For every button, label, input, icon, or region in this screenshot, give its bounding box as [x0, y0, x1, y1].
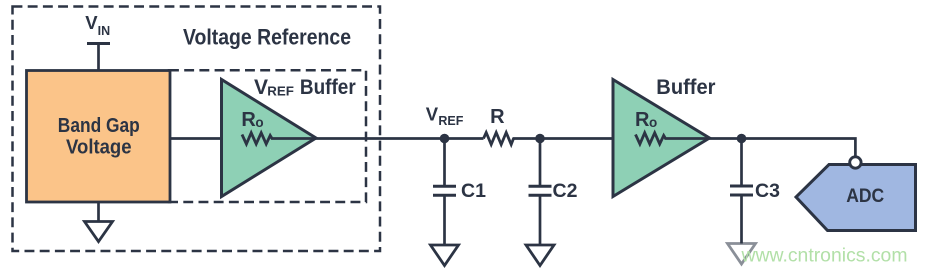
- wire U2 output to ADC: [708, 139, 855, 157]
- wire U1 output to R: [314, 137, 484, 140]
- VIN terminal bar: [87, 42, 110, 45]
- svg-text:Voltage: Voltage: [66, 136, 132, 159]
- ground (C2): [526, 245, 554, 266]
- op-amp U1 (VREF buffer): [222, 80, 317, 197]
- wire VIN to band gap box: [97, 44, 100, 72]
- ground (C1): [431, 245, 459, 266]
- resistor R: [484, 133, 514, 145]
- svg-text:Band Gap: Band Gap: [58, 114, 140, 137]
- ground (band gap): [85, 222, 113, 242]
- node (U2 out / C3): [737, 134, 747, 144]
- capacitor C3: [730, 185, 753, 188]
- svg-text:C3: C3: [755, 180, 780, 202]
- capacitor C3 lead: [740, 139, 743, 185]
- wire R to buffer U2: [513, 137, 617, 140]
- outer dashed box (Voltage Reference block): [13, 7, 381, 252]
- inner dashed box (VREF buffer block): [169, 70, 366, 202]
- capacitor C1 lead: [443, 139, 446, 186]
- svg-text:C1: C1: [461, 180, 486, 202]
- wire band gap box to ground: [97, 202, 100, 222]
- node VREF: [440, 134, 450, 144]
- svg-text:R: R: [490, 106, 505, 128]
- resistor Ro zigzag (U1): [242, 133, 316, 144]
- svg-text:www.cntronics.com: www.cntronics.com: [741, 245, 908, 267]
- svg-text:Voltage Reference: Voltage Reference: [183, 25, 351, 50]
- ground (C3): [728, 244, 756, 265]
- svg-text:C2: C2: [553, 180, 578, 202]
- node (R / C2): [535, 134, 545, 144]
- wire C1 to ground: [443, 197, 446, 246]
- wire C3 to ground: [740, 196, 743, 244]
- resistor Ro zigzag (U2): [636, 133, 710, 144]
- op-amp U2 (Buffer): [613, 80, 710, 197]
- ADC block: [796, 165, 916, 231]
- capacitor C1: [433, 185, 456, 188]
- ADC input terminal circle: [850, 157, 861, 168]
- capacitor C2: [529, 185, 552, 188]
- capacitor C2 lead: [539, 139, 542, 186]
- svg-text:ADC: ADC: [846, 185, 884, 207]
- wire band gap box to VREF node (through buffer U1): [170, 137, 225, 140]
- svg-text:Buffer: Buffer: [656, 76, 715, 99]
- wire C2 to ground: [539, 197, 542, 246]
- band gap block: [27, 71, 171, 203]
